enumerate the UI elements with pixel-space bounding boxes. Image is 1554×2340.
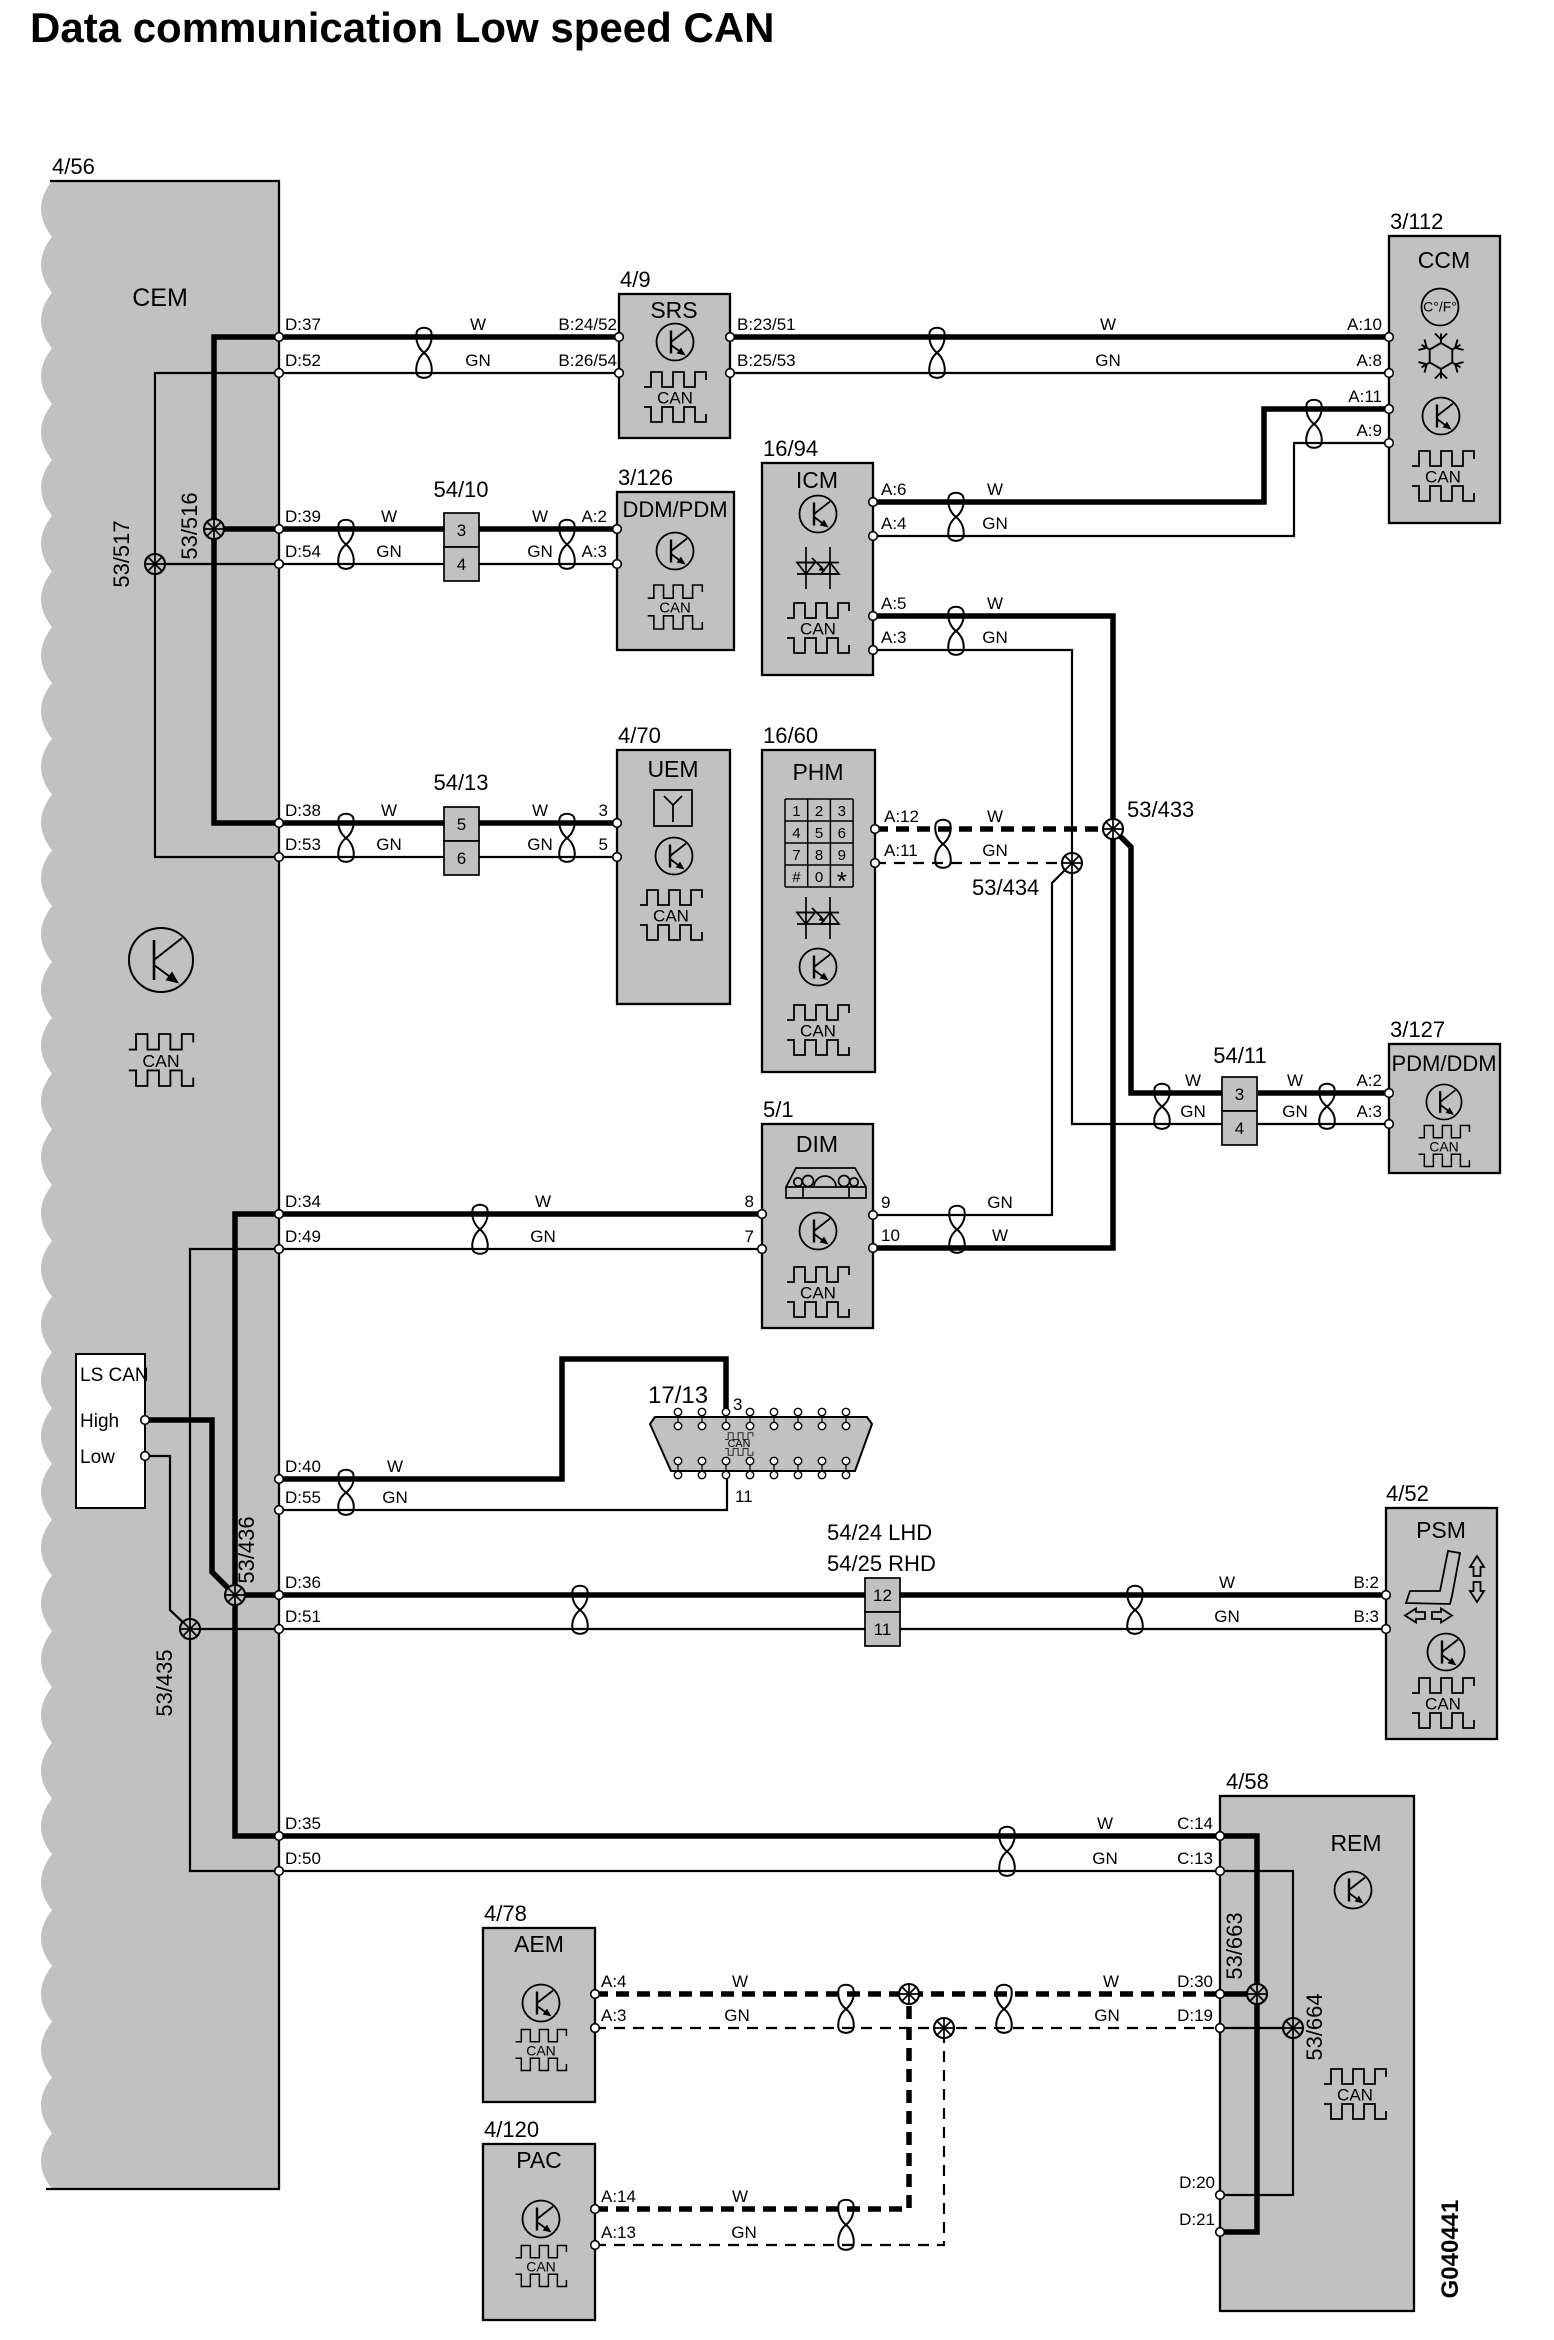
- pin CCM A:9: [1385, 439, 1394, 448]
- svg-text:D:53: D:53: [285, 835, 321, 854]
- control module PHM 16/60: [762, 750, 875, 1072]
- svg-text:UEM: UEM: [647, 756, 698, 782]
- svg-text:W: W: [1185, 1071, 1201, 1090]
- control module ICM 16/94: [762, 463, 873, 675]
- svg-text:PDM/DDM: PDM/DDM: [1391, 1051, 1496, 1076]
- svg-text:53/664: 53/664: [1302, 1993, 1327, 2060]
- AEM transistor symbol: [523, 1985, 560, 2022]
- pin REM D:21: [1216, 2228, 1225, 2237]
- svg-text:53/435: 53/435: [152, 1649, 177, 1716]
- svg-text:A:3: A:3: [601, 2006, 627, 2025]
- twisted pair symbol: [338, 1470, 353, 1515]
- ICM triac symbol: [797, 547, 839, 589]
- svg-text:GN: GN: [1180, 1102, 1206, 1121]
- svg-text:PAC: PAC: [516, 2147, 562, 2173]
- svg-text:53/663: 53/663: [1222, 1912, 1247, 1979]
- wire LS CAN Low to splice 53/435: [145, 1456, 190, 1629]
- svg-text:4: 4: [457, 555, 466, 574]
- splice 53/663: [1247, 1984, 1267, 2004]
- twisted pair symbol: [559, 814, 574, 862]
- control module PDM/DDM 3/127: [1389, 1044, 1500, 1173]
- pin PHM A:12: [871, 825, 880, 834]
- svg-text:W: W: [1097, 1814, 1113, 1833]
- pin DIM 8: [758, 1210, 767, 1219]
- twisted pair symbol: [838, 2200, 853, 2250]
- wire CAN-H: CEM D:34/D:35 branch to DIM and REM: [235, 1214, 1220, 1836]
- svg-text:GN: GN: [724, 2006, 750, 2025]
- pin CEM D:55: [275, 1506, 284, 1515]
- svg-text:GN: GN: [1095, 351, 1121, 370]
- CCM CAN symbol: [1412, 451, 1474, 501]
- PAC transistor symbol: [523, 2201, 560, 2238]
- pin REM D:30: [1216, 1990, 1225, 1999]
- svg-text:High: High: [80, 1411, 119, 1432]
- wire CAN-L: CEM D:52/D:53 branch: [155, 373, 619, 857]
- svg-text:9: 9: [881, 1193, 890, 1212]
- svg-text:GN: GN: [465, 351, 491, 370]
- svg-text:A:3: A:3: [1356, 1102, 1382, 1121]
- svg-text:CAN: CAN: [657, 389, 693, 408]
- control module PAC 4/120: [483, 2144, 595, 2320]
- PHM transistor symbol: [800, 949, 837, 986]
- wire W: ICM A:6 to CCM A:11: [873, 409, 1389, 502]
- svg-text:W: W: [1219, 1573, 1235, 1592]
- svg-text:W: W: [1103, 1972, 1119, 1991]
- wire W dashed: PHM A:12 to splice 53/433: [875, 826, 1113, 832]
- svg-text:6: 6: [838, 825, 846, 842]
- svg-text:6: 6: [457, 849, 466, 868]
- wire CAN-L: CEM D:51 to connector 54/24: [190, 1628, 865, 1630]
- pin CCM A:11: [1385, 405, 1394, 414]
- UEM transistor symbol: [656, 838, 693, 875]
- svg-text:Low: Low: [80, 1447, 115, 1468]
- twisted pair symbol: [572, 1586, 587, 1634]
- svg-text:4/70: 4/70: [618, 723, 661, 748]
- svg-text:A:10: A:10: [1347, 315, 1382, 334]
- pin CCM A:8: [1385, 369, 1394, 378]
- wire: REM D:19 to splice 53/664: [1220, 2027, 1293, 2029]
- svg-text:53/436: 53/436: [234, 1516, 259, 1583]
- control module REM 4/58: [1220, 1796, 1414, 2311]
- svg-text:4/52: 4/52: [1386, 1481, 1429, 1506]
- twisted pair symbol: [1319, 1084, 1334, 1129]
- svg-text:W: W: [381, 801, 397, 820]
- svg-text:CAN: CAN: [1429, 1138, 1458, 1154]
- svg-text:GN: GN: [530, 1227, 556, 1246]
- svg-text:A:5: A:5: [881, 594, 907, 613]
- svg-text:GN: GN: [1092, 1849, 1118, 1868]
- splice 53/517: [145, 554, 165, 574]
- svg-text:10: 10: [881, 1226, 900, 1245]
- pin CEM D:52: [275, 369, 284, 378]
- svg-text:C°/F°: C°/F°: [1423, 299, 1457, 315]
- PDM CAN symbol: [1419, 1126, 1470, 1167]
- REM transistor symbol: [1335, 1872, 1372, 1909]
- pin CEM D:40: [275, 1475, 284, 1484]
- svg-text:W: W: [732, 1972, 748, 1991]
- svg-text:REM: REM: [1330, 1830, 1381, 1856]
- svg-text:GN: GN: [982, 514, 1008, 533]
- control module DDM/PDM 3/126: [617, 492, 734, 650]
- svg-text:5: 5: [599, 835, 608, 854]
- wire W: connector 54/10 to DDM/PDM A:2: [478, 526, 617, 532]
- PDM transistor symbol: [1426, 1084, 1461, 1119]
- pin CEM D:53: [275, 853, 284, 862]
- wire W dashed: PAC A:14 to splice: [595, 1994, 909, 2209]
- svg-text:D:49: D:49: [285, 1227, 321, 1246]
- pin DDM/PDM A:2: [613, 525, 622, 534]
- svg-text:GN: GN: [982, 841, 1008, 860]
- svg-text:CAN: CAN: [526, 2042, 555, 2058]
- svg-text:C:14: C:14: [1177, 1814, 1213, 1833]
- svg-text:W: W: [987, 594, 1003, 613]
- pin CEM D:50: [275, 1867, 284, 1876]
- pin REM C:14: [1216, 1832, 1225, 1841]
- wire W: splice 53/433 to connector 54/11 pin 3: [1113, 829, 1222, 1093]
- AEM CAN symbol: [516, 2030, 567, 2071]
- svg-text:B:26/54: B:26/54: [558, 351, 617, 370]
- DIM instrument cluster symbol: [786, 1168, 866, 1198]
- pin PHM A:11: [871, 859, 880, 868]
- wire GN: connector 54/24 to PSM B:3: [900, 1628, 1386, 1630]
- UEM antenna symbol: [654, 790, 692, 826]
- svg-text:8: 8: [745, 1192, 754, 1211]
- PAC CAN symbol: [516, 2246, 567, 2287]
- svg-text:A:6: A:6: [881, 480, 907, 499]
- data link connector DLC 17/13: [650, 1417, 872, 1471]
- splice 53/664: [1283, 2018, 1303, 2038]
- pin CEM D:39: [275, 525, 284, 534]
- svg-text:D:19: D:19: [1177, 2006, 1213, 2025]
- UEM CAN symbol: [640, 890, 702, 940]
- svg-text:D:55: D:55: [285, 1488, 321, 1507]
- wire GN dashed: PHM A:11 to splice 53/434: [875, 862, 1072, 864]
- pin ICM A:6: [869, 498, 878, 507]
- svg-text:B:24/52: B:24/52: [558, 315, 617, 334]
- svg-text:D:51: D:51: [285, 1607, 321, 1626]
- svg-text:A:12: A:12: [884, 807, 919, 826]
- svg-text:B:25/53: B:25/53: [737, 351, 796, 370]
- DDM CAN symbol: [648, 585, 703, 629]
- twisted pair symbol: [929, 328, 944, 378]
- svg-text:53/433: 53/433: [1127, 797, 1194, 822]
- svg-text:GN: GN: [1282, 1102, 1308, 1121]
- svg-text:54/25 RHD: 54/25 RHD: [827, 1551, 936, 1576]
- pin CEM D:51: [275, 1625, 284, 1634]
- svg-text:CAN: CAN: [800, 1284, 836, 1303]
- twisted pair symbol: [472, 1205, 487, 1254]
- splice 53/436: [225, 1585, 245, 1605]
- pin CCM A:10: [1385, 333, 1394, 342]
- svg-text:D:54: D:54: [285, 542, 321, 561]
- svg-text:54/13: 54/13: [433, 770, 488, 795]
- wire GN: splice 53/434 to DIM pin 9: [873, 863, 1072, 1215]
- twisted pair symbol: [1154, 1084, 1169, 1129]
- wire LS CAN High to splice 53/436: [145, 1420, 235, 1595]
- wire: REM C:14 to D:21 via splice 53/663: [1220, 1836, 1257, 2232]
- svg-text:ICM: ICM: [796, 467, 838, 493]
- pin SRS B:26/54: [615, 369, 624, 378]
- svg-text:3: 3: [838, 803, 846, 820]
- svg-text:*: *: [837, 866, 847, 896]
- svg-text:GN: GN: [527, 542, 553, 561]
- wire GN dashed: PAC A:13 to splice: [595, 2028, 944, 2245]
- control module AEM 4/78: [483, 1928, 595, 2102]
- DIM CAN symbol: [787, 1267, 849, 1317]
- svg-text:B:23/51: B:23/51: [737, 315, 796, 334]
- svg-text:CEM: CEM: [132, 284, 188, 312]
- svg-text:PHM: PHM: [792, 759, 843, 785]
- svg-text:CAN: CAN: [1425, 468, 1461, 487]
- PHM CAN symbol: [787, 1005, 849, 1055]
- svg-text:A:4: A:4: [881, 514, 907, 533]
- svg-text:D:20: D:20: [1179, 2173, 1215, 2192]
- connector 54/11 pins 3-4: [1222, 1077, 1257, 1111]
- svg-text:53/517: 53/517: [109, 520, 134, 587]
- wire GN: SRS B:25/53 to CCM A:8: [730, 372, 1389, 374]
- svg-text:12: 12: [873, 1586, 892, 1605]
- wire CAN-L: CEM D:55 to DLC 17/13 pin 11: [279, 1475, 727, 1510]
- twisted pair symbol: [1306, 400, 1321, 448]
- wire W: connector 54/24 to PSM B:2: [900, 1592, 1386, 1598]
- pin SRS B:23/51: [726, 333, 735, 342]
- pin DIM 7: [758, 1245, 767, 1254]
- svg-text:3/127: 3/127: [1390, 1017, 1445, 1042]
- twisted pair symbol: [338, 520, 353, 569]
- svg-text:CAN: CAN: [1337, 2086, 1373, 2105]
- svg-text:Data communication Low speed C: Data communication Low speed CAN: [30, 4, 774, 51]
- svg-text:D:50: D:50: [285, 1849, 321, 1868]
- control module CEM 4/56 box: [41, 181, 279, 2189]
- DLC 17/13 pins: [674, 1408, 849, 1479]
- svg-text:W: W: [987, 807, 1003, 826]
- DLC mini CAN symbol: [725, 1433, 753, 1456]
- twisted pair symbol: [1127, 1586, 1142, 1634]
- svg-text:D:34: D:34: [285, 1192, 321, 1211]
- svg-text:D:37: D:37: [285, 315, 321, 334]
- pin ICM A:5: [869, 612, 878, 621]
- twisted pair symbol: [948, 607, 963, 655]
- control module DIM 5/1: [762, 1124, 873, 1328]
- pin REM D:19: [1216, 2024, 1225, 2033]
- wire: REM C:13 to D:20 via splice 53/664: [1220, 1871, 1293, 2195]
- svg-text:LS CAN: LS CAN: [80, 1365, 149, 1386]
- pin AEM A:4: [591, 1990, 600, 1999]
- svg-text:5: 5: [815, 825, 823, 842]
- pin CEM D:34: [275, 1210, 284, 1219]
- svg-text:GN: GN: [376, 835, 402, 854]
- svg-text:D:21: D:21: [1179, 2210, 1215, 2229]
- svg-text:D:38: D:38: [285, 801, 321, 820]
- wire GN from splice 53/517 to connector 54/10: [155, 563, 444, 565]
- svg-text:G040441: G040441: [1437, 2200, 1464, 2299]
- svg-text:54/24 LHD: 54/24 LHD: [827, 1520, 932, 1545]
- svg-text:A:11: A:11: [1348, 387, 1382, 406]
- DIM transistor symbol: [800, 1213, 837, 1250]
- svg-text:A:2: A:2: [1356, 1071, 1382, 1090]
- LS CAN connector box: [76, 1354, 145, 1508]
- svg-text:4/9: 4/9: [620, 267, 651, 292]
- pin SRS B:25/53: [726, 369, 735, 378]
- splice on AEM GN wire: [934, 2018, 954, 2038]
- pin PAC A:14: [591, 2205, 600, 2214]
- svg-text:2: 2: [815, 803, 823, 820]
- svg-text:GN: GN: [382, 1488, 408, 1507]
- pin PDM/DDM A:2: [1385, 1089, 1394, 1098]
- twisted pair symbol: [559, 520, 574, 569]
- svg-text:AEM: AEM: [514, 1931, 564, 1957]
- svg-text:W: W: [387, 1457, 403, 1476]
- svg-text:54/11: 54/11: [1213, 1043, 1266, 1068]
- svg-text:A:9: A:9: [1356, 421, 1382, 440]
- wire CAN-L: CEM D:49/D:50 branch: [190, 1249, 1220, 1871]
- svg-text:D:39: D:39: [285, 507, 321, 526]
- control module UEM 4/70: [617, 750, 730, 1004]
- pin LS CAN Low: [141, 1452, 150, 1461]
- PSM power seat symbol: [1405, 1551, 1484, 1623]
- svg-text:3: 3: [1235, 1085, 1244, 1104]
- svg-text:W: W: [732, 2187, 748, 2206]
- svg-text:GN: GN: [987, 1193, 1013, 1212]
- ICM transistor symbol: [800, 496, 837, 533]
- svg-text:D:36: D:36: [285, 1573, 321, 1592]
- SRS transistor symbol: [657, 324, 694, 361]
- CEM transistor symbol: [129, 928, 193, 992]
- svg-text:D:35: D:35: [285, 1814, 321, 1833]
- svg-text:#: #: [792, 869, 801, 886]
- twisted pair symbol: [949, 1206, 964, 1253]
- svg-text:5: 5: [457, 815, 466, 834]
- svg-text:CAN: CAN: [800, 620, 836, 639]
- svg-text:W: W: [532, 507, 548, 526]
- svg-text:GN: GN: [1214, 1607, 1240, 1626]
- svg-text:CAN: CAN: [728, 1438, 751, 1450]
- twisted pair symbol: [999, 1827, 1014, 1876]
- svg-text:W: W: [532, 801, 548, 820]
- twisted pair symbol: [338, 814, 353, 862]
- pin PSM B:2: [1382, 1591, 1391, 1600]
- pin CEM D:35: [275, 1832, 284, 1841]
- svg-text:3: 3: [599, 801, 608, 820]
- CCM transistor symbol: [1423, 398, 1460, 435]
- PHM keypad symbol: [785, 799, 853, 887]
- wire: REM D:30 to splice 53/663: [1220, 1991, 1257, 1997]
- splice 53/516: [204, 519, 224, 539]
- svg-text:11: 11: [874, 1620, 892, 1639]
- svg-text:1: 1: [792, 803, 800, 820]
- ICM CAN symbol: [787, 603, 849, 653]
- PSM CAN symbol: [1412, 1678, 1474, 1728]
- control module SRS 4/9: [619, 294, 730, 438]
- connector 54/13 pins 5-6: [444, 807, 479, 841]
- pin CEM D:54: [275, 560, 284, 569]
- svg-text:3: 3: [457, 521, 466, 540]
- svg-text:CAN: CAN: [142, 1051, 179, 1071]
- svg-text:A:14: A:14: [601, 2187, 636, 2206]
- svg-text:D:52: D:52: [285, 351, 321, 370]
- splice 53/434: [1062, 853, 1082, 873]
- SRS CAN symbol: [644, 372, 706, 422]
- svg-text:4/78: 4/78: [484, 1901, 527, 1926]
- svg-text:4/120: 4/120: [484, 2117, 539, 2142]
- splice on AEM W wire: [899, 1984, 919, 2004]
- svg-text:CCM: CCM: [1418, 247, 1470, 273]
- splice 53/433: [1103, 819, 1123, 839]
- svg-text:7: 7: [792, 847, 800, 864]
- svg-text:4: 4: [792, 825, 800, 842]
- svg-text:A:3: A:3: [581, 542, 607, 561]
- svg-text:CAN: CAN: [653, 907, 689, 926]
- PHM triac symbol: [797, 897, 839, 939]
- pin PDM/DDM A:3: [1385, 1120, 1394, 1129]
- wire W dashed: AEM A:4 to REM D:30: [595, 1991, 1220, 1997]
- wire CAN-H: CEM D:37/D:38 branch to SRS and UEM row: [214, 337, 619, 823]
- svg-text:9: 9: [838, 847, 846, 864]
- svg-text:W: W: [470, 315, 486, 334]
- svg-text:W: W: [992, 1226, 1008, 1245]
- pin CEM D:38: [275, 819, 284, 828]
- REM CAN symbol: [1324, 2069, 1386, 2119]
- svg-text:DDM/PDM: DDM/PDM: [622, 497, 727, 522]
- svg-text:W: W: [381, 507, 397, 526]
- svg-text:A:13: A:13: [601, 2223, 636, 2242]
- svg-text:W: W: [987, 480, 1003, 499]
- wire W: connector 54/11 to PDM/DDM A:2: [1258, 1090, 1389, 1096]
- pin UEM 5: [613, 853, 622, 862]
- svg-text:5/1: 5/1: [763, 1097, 794, 1122]
- wire W from splice 53/516 to connector 54/10: [214, 526, 444, 532]
- svg-text:GN: GN: [982, 628, 1008, 647]
- connector 54/24-54/25 pins 12-11: [865, 1578, 900, 1612]
- svg-text:A:2: A:2: [581, 507, 607, 526]
- twisted pair symbol: [996, 1985, 1011, 2033]
- svg-text:W: W: [1287, 1071, 1303, 1090]
- CCM snowflake symbol: [1419, 334, 1464, 379]
- wire GN: ICM A:4 to CCM A:9: [873, 443, 1389, 536]
- svg-text:SRS: SRS: [650, 297, 697, 323]
- pin REM D:20: [1216, 2191, 1225, 2200]
- svg-text:16/60: 16/60: [763, 723, 818, 748]
- twisted pair symbol: [838, 1985, 853, 2033]
- CEM CAN waveform symbol: [129, 1034, 193, 1086]
- svg-text:A:11: A:11: [884, 841, 918, 860]
- twisted pair symbol: [416, 328, 431, 378]
- svg-text:3: 3: [733, 1395, 742, 1414]
- twisted pair symbol: [935, 820, 950, 868]
- control module CCM 3/112: [1389, 236, 1500, 523]
- svg-text:CAN: CAN: [800, 1022, 836, 1041]
- wire W: SRS B:23/51 to CCM A:10: [730, 334, 1389, 340]
- pin LS CAN High: [141, 1416, 150, 1425]
- twisted pair symbol: [948, 493, 963, 541]
- pin REM C:13: [1216, 1867, 1225, 1876]
- wire GN: connector 54/10 to DDM/PDM A:3: [478, 563, 617, 565]
- svg-text:3/112: 3/112: [1390, 209, 1443, 234]
- svg-text:7: 7: [745, 1227, 754, 1246]
- svg-text:CAN: CAN: [1425, 1695, 1461, 1714]
- wire GN dashed: AEM A:3 to REM D:19: [595, 2027, 1220, 2029]
- pin PSM B:3: [1382, 1625, 1391, 1634]
- svg-text:A:8: A:8: [1356, 351, 1382, 370]
- svg-text:PSM: PSM: [1416, 1517, 1466, 1543]
- svg-text:4/58: 4/58: [1226, 1769, 1269, 1794]
- svg-text:4/56: 4/56: [52, 154, 95, 179]
- svg-text:11: 11: [735, 1487, 753, 1506]
- pin DIM 10: [869, 1244, 878, 1253]
- svg-text:3/126: 3/126: [618, 465, 673, 490]
- pin DIM 9: [869, 1211, 878, 1220]
- PSM transistor symbol: [1428, 1634, 1465, 1671]
